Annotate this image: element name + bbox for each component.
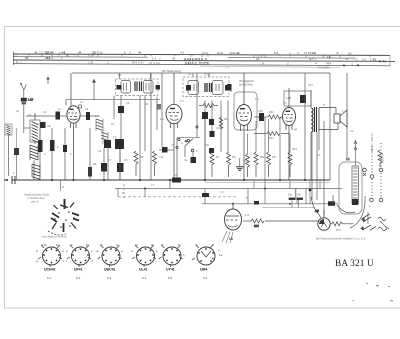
svg-text:1M: 1M (160, 117, 164, 121)
svg-text:Bei Gleichstrombetrieb entfa: Bei Gleichstrombetrieb entfallen C a u. … (316, 237, 366, 241)
BA 321 U title (335, 259, 374, 269)
svg-text:6.4: 6.4 (142, 276, 147, 280)
svg-text:HF-Spannung: HF-Spannung (162, 69, 181, 73)
alignment radial sketch (42, 199, 79, 239)
dial tick marks (16, 54, 370, 58)
resistors row (vertical zigzags above bus) (134, 150, 382, 177)
svg-text:110 V=: 110 V= (381, 153, 385, 163)
resistor R grid (horizontal zigzag) (268, 110, 283, 119)
svg-text:C13: C13 (243, 159, 248, 163)
cap C9b dark (209, 119, 214, 125)
svg-text:C28: C28 (286, 96, 291, 100)
svg-text:R4: R4 (224, 117, 228, 121)
note text under power area (316, 237, 366, 241)
bus echo line (205, 181, 330, 183)
svg-text:R.: R. (91, 61, 94, 65)
svg-text:d₁: d₁ (100, 243, 103, 247)
svg-text:Ca: Ca (288, 193, 292, 197)
junction dot (309, 189, 312, 192)
svg-text:41 41: 41 41 (378, 59, 386, 63)
resistor R9 vertical zigzag (219, 117, 223, 129)
svg-text:7.2: 7.2 (39, 50, 44, 54)
dial scale band (13, 52, 395, 68)
svg-text:Abgleichpunkte Skala: Abgleichpunkte Skala (24, 193, 50, 197)
cap C30 (202, 193, 209, 204)
svg-text:7.1: 7.1 (151, 183, 155, 187)
wave switch lever (177, 138, 200, 164)
svg-text:32: 32 (172, 57, 176, 61)
svg-text:C8: C8 (124, 158, 128, 162)
svg-text:C26: C26 (258, 109, 263, 113)
svg-text:u. Drehko oben: u. Drehko oben (27, 196, 45, 200)
svg-text:32: 32 (373, 57, 377, 61)
ballast box (339, 140, 362, 214)
socket 5 UY41 (159, 243, 185, 281)
main hum bus (12, 179, 330, 181)
svg-text:R2: R2 (145, 102, 149, 106)
tube U1 UCH42 (67, 73, 80, 180)
capacitor C7 (101, 148, 107, 180)
svg-text:16: 16 (348, 51, 352, 55)
bus stubs lower right (248, 180, 320, 204)
svg-text:UBC41: UBC41 (104, 268, 116, 272)
svg-text:1.5: 1.5 (283, 101, 287, 105)
svg-text:g₂g₃: g₂g₃ (41, 243, 48, 247)
dark cap at 162 (159, 147, 174, 153)
terminal circles (363, 143, 383, 209)
rectifier tube U5 UY41 (222, 204, 249, 243)
trimmer cap small (157, 104, 162, 110)
svg-text:18: 18 (256, 57, 260, 61)
IF transformer box F1 (116, 79, 161, 96)
svg-text:B.: B. (343, 63, 346, 67)
svg-text:44: 44 (34, 50, 38, 54)
svg-text:−: − (379, 205, 381, 209)
rotated voltage labels (370, 132, 385, 163)
svg-text:1.15: 1.15 (28, 98, 34, 102)
svg-text:UCH42: UCH42 (44, 268, 56, 272)
svg-text:1.4: 1.4 (255, 97, 259, 101)
svg-text:R.: R. (357, 64, 360, 68)
svg-text:2 1: 2 1 (225, 65, 229, 69)
svg-text:IFT-Abgleich: IFT-Abgleich (239, 79, 254, 83)
svg-text:5 A: 5 A (274, 51, 278, 55)
tube U4 UL41 (283, 91, 296, 180)
cap C6 (118, 106, 124, 139)
cap dark near box2 right (227, 84, 232, 91)
output transformer T1 (311, 90, 319, 180)
svg-text:C2: C2 (43, 110, 47, 114)
svg-text:44: 44 (138, 51, 142, 55)
tuning coil L2 (30, 145, 38, 180)
svg-text:R6: R6 (140, 155, 144, 159)
svg-text:C1: C1 (28, 113, 32, 117)
svg-text:R7: R7 (216, 155, 220, 159)
cap C10 (202, 112, 208, 180)
grid cap terminal (78, 105, 81, 108)
wires between F1 and tube2 (114, 73, 197, 189)
resistor R13 horizontal zigzag lower (254, 132, 289, 141)
svg-text:Ca: Ca (184, 158, 188, 162)
input coil L1 (30, 113, 40, 144)
socket 3 UBC41 (96, 243, 123, 281)
component value labels (13, 72, 354, 252)
lower area wires (118, 180, 310, 204)
svg-text:R11: R11 (260, 155, 265, 159)
oscillator coil L3 (96, 119, 108, 144)
svg-text:2.2: 2.2 (350, 129, 354, 133)
svg-text:C27: C27 (308, 83, 313, 87)
dial scale tick text (16, 50, 386, 69)
switch contacts (176, 126, 198, 149)
resistor R3 horizontal (199, 104, 218, 108)
svg-text:1 A: 1 A (49, 56, 53, 60)
dial lamp (315, 209, 330, 230)
svg-text:R75: R75 (254, 224, 259, 228)
svg-text:C4: C4 (85, 107, 89, 111)
small cap left column (14, 128, 19, 180)
svg-text:C8: C8 (47, 124, 51, 128)
cap blob on it (254, 201, 341, 232)
antenna 2 arrow (92, 79, 96, 100)
svg-text:4.4: 4.4 (180, 51, 185, 55)
svg-text:C9: C9 (210, 105, 214, 109)
svg-text:4 8 9 41: 4 8 9 41 (133, 61, 144, 65)
coupling cap C26 (254, 113, 268, 121)
socket 1 UCH42 (36, 243, 64, 281)
mains switch (361, 212, 389, 231)
vertical feeds to resistor row (248, 117, 291, 189)
svg-text:g₁: g₁ (151, 243, 154, 247)
svg-text:R5: R5 (93, 162, 97, 166)
svg-text:f₁: f₁ (183, 253, 185, 257)
svg-text:An: An (16, 109, 20, 113)
top bus wires (24, 73, 330, 128)
socket 4 UL41 (131, 243, 158, 281)
svg-text:R.: R. (262, 61, 265, 65)
svg-text:UL41: UL41 (139, 268, 148, 272)
svg-text:Cb: Cb (317, 153, 321, 157)
svg-text:R12: R12 (269, 110, 274, 114)
svg-text:10 9 11: 10 9 11 (93, 51, 103, 55)
svg-text:10 9: 10 9 (202, 51, 208, 55)
svg-text:1.3: 1.3 (180, 99, 184, 103)
capacitor C8 (117, 149, 124, 180)
capacitor C0 (40, 122, 51, 128)
svg-text:B: B (62, 185, 64, 189)
svg-text:4.: 4. (313, 51, 316, 55)
tube U3 UBC41 with shield box (234, 73, 257, 180)
svg-text:1a: 1a (219, 253, 223, 257)
bus left terminal (4, 176, 15, 184)
socket 6 UM4 (192, 243, 223, 281)
resistor labels (140, 155, 276, 159)
svg-text:C10: C10 (216, 126, 221, 130)
choke on bus (172, 178, 181, 183)
svg-text:1B: 1B (229, 237, 232, 241)
svg-text:Tr: Tr (323, 103, 325, 107)
capacitor C2b (63, 128, 67, 180)
svg-text:C5: C5 (171, 143, 175, 147)
speaker LS (319, 108, 347, 130)
IF transformer box F2 (183, 77, 231, 97)
tube U2 UF41 (166, 73, 182, 180)
padder cap C5 (104, 139, 124, 180)
svg-text:UY41: UY41 (166, 268, 175, 272)
capacitor C1 (38, 128, 43, 180)
svg-text:6.1: 6.1 (47, 276, 52, 280)
faint specks bottom right (352, 283, 393, 301)
svg-text:6.3: 6.3 (107, 276, 112, 280)
power cord curve (311, 195, 365, 228)
svg-text:6.5: 6.5 (168, 276, 173, 280)
svg-text:44: 44 (78, 50, 82, 54)
svg-text:1 A: 1 A (152, 56, 156, 60)
svg-text:UM4: UM4 (200, 268, 207, 272)
resistor R5 vertical dark (88, 128, 92, 180)
svg-text:31 12500: 31 12500 (318, 66, 330, 70)
svg-text:7.2: 7.2 (220, 190, 224, 194)
secondary bus (61, 180, 343, 199)
small coil left edge (5, 124, 12, 176)
svg-text:C11: C11 (205, 143, 210, 147)
svg-text:10 9: 10 9 (217, 51, 223, 55)
svg-text:C7: C7 (108, 158, 112, 162)
svg-text:Cp: Cp (113, 135, 117, 139)
svg-text:g₁: g₁ (70, 243, 73, 247)
svg-text:bei 452 kHz: bei 452 kHz (239, 83, 253, 87)
svg-text:g₁′: g₁′ (56, 243, 60, 247)
svg-text:Dr: Dr (174, 173, 177, 177)
capacitor C2 (50, 128, 55, 180)
text above F2 (162, 69, 254, 87)
cap dark blobs mid (209, 131, 244, 170)
svg-text:R13: R13 (269, 136, 274, 140)
cap C28 (284, 88, 311, 107)
svg-text:geh. B: geh. B (31, 200, 39, 204)
svg-text:BA 321 U: BA 321 U (335, 259, 374, 269)
svg-text:R76: R76 (336, 228, 341, 232)
svg-text:7Tk: 7Tk (159, 155, 164, 159)
svg-text:56: 56 (25, 56, 29, 60)
grid cap C4 (80, 112, 100, 120)
svg-text:6.2: 6.2 (76, 276, 81, 280)
svg-text:R9: R9 (232, 155, 236, 159)
resistor Rv (horizontal zigzag) (243, 219, 318, 228)
svg-text:R14: R14 (292, 147, 297, 151)
antenna (20, 83, 34, 133)
svg-text:JTATA S. TEXTE: JTATA S. TEXTE (184, 62, 210, 66)
svg-text:C6: C6 (126, 101, 130, 105)
svg-text:Cb: Cb (297, 193, 301, 197)
svg-text:6.6: 6.6 (203, 276, 208, 280)
svg-text:1.1: 1.1 (80, 100, 84, 104)
svg-text:220 V~ 127 V~: 220 V~ 127 V~ (370, 132, 374, 152)
arrow mark left (46, 77, 50, 85)
mark 1B (229, 237, 234, 241)
svg-text:1.2: 1.2 (346, 157, 350, 161)
socket 2 UAF42 (66, 243, 93, 281)
svg-text:1.6: 1.6 (245, 213, 249, 217)
svg-text:W2: W2 (272, 155, 276, 159)
coil L2b hatch (32, 164, 40, 179)
wires mid top (205, 84, 231, 180)
caps Ca Cb (262, 189, 315, 208)
lower horizontal wire (202, 200, 338, 204)
bus junction dots (51, 179, 306, 205)
capacitor C3 (26, 112, 67, 120)
svg-text:+: + (369, 205, 371, 209)
svg-text:B.: B. (16, 60, 19, 64)
svg-text:3 A: 3 A (362, 57, 366, 61)
svg-text:zum Abgleich Drehko: zum Abgleich Drehko (42, 235, 67, 239)
left bottom: alignment sketch text (24, 193, 50, 204)
svg-text:UF41: UF41 (74, 268, 83, 272)
vertical wires right section (305, 73, 347, 215)
svg-text:41: 41 (345, 57, 349, 61)
